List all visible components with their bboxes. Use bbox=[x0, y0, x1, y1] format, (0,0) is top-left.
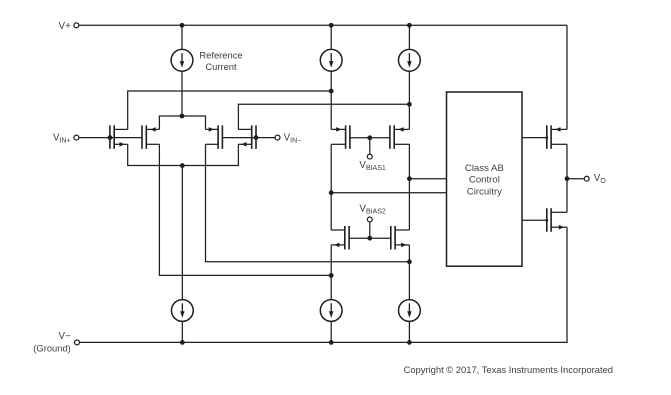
wire inner pair top tail bbox=[159, 116, 205, 129]
node W2 junction bbox=[407, 102, 412, 107]
svg-text:Control: Control bbox=[469, 175, 500, 186]
svg-text:(Ground): (Ground) bbox=[33, 343, 71, 354]
terminal VBIAS1 bbox=[367, 154, 372, 159]
node WA junction bbox=[407, 259, 412, 264]
wire outer pair bottom tail bbox=[128, 144, 239, 165]
terminal VBIAS2 bbox=[367, 217, 372, 222]
node Q9 gate dot bbox=[545, 136, 548, 139]
wire Q9 gate to box bbox=[522, 137, 547, 139]
node top-rail junction A bbox=[180, 23, 185, 28]
wire W1 down to Q5 bbox=[330, 91, 332, 129]
wire VBIAS2 gates bbox=[349, 237, 391, 239]
transistor Q9 (output PMOS) bbox=[546, 125, 548, 149]
wire V+ rail bbox=[79, 24, 567, 26]
wire I3 top stub bbox=[408, 25, 410, 49]
svg-text:Reference: Reference bbox=[199, 49, 242, 60]
node WC junction bbox=[329, 190, 334, 195]
terminal V- bbox=[75, 340, 80, 345]
node W1 junction bbox=[329, 89, 334, 94]
svg-text:Circuitry: Circuitry bbox=[467, 186, 502, 197]
terminal VO bbox=[584, 176, 589, 181]
wire V- rail bbox=[80, 341, 568, 343]
svg-text:V−: V− bbox=[59, 331, 72, 342]
transistor Q8 (lower cascode right NMOS) bbox=[390, 226, 392, 250]
node top-rail junction B bbox=[329, 23, 334, 28]
current source I4 (tail) bbox=[171, 300, 193, 322]
node VBIAS1 gate junction bbox=[367, 135, 372, 140]
wire ref-source top stub bbox=[181, 25, 183, 49]
wire Q8 source down to I6 bbox=[408, 245, 410, 299]
current source I2 bbox=[320, 49, 342, 71]
terminal V+ bbox=[74, 23, 79, 28]
wire ref-source to inner-pair tail bbox=[181, 72, 183, 117]
wire VBIAS2 stub bbox=[369, 222, 371, 238]
node inner tail junction bbox=[180, 114, 185, 119]
svg-text:VBIAS2: VBIAS2 bbox=[359, 204, 385, 216]
wire VIN- to gates bbox=[222, 137, 274, 139]
wire output node to Q10 bbox=[566, 179, 568, 213]
wire I2 to node W1 bbox=[330, 72, 332, 92]
wire left cascode chain bbox=[330, 144, 332, 230]
current source I1 (reference) bbox=[171, 49, 193, 71]
wire I2 top stub bbox=[330, 25, 332, 49]
node V- rail junction C bbox=[407, 340, 412, 345]
node outer tail junction bbox=[180, 163, 185, 168]
current source I5 bbox=[320, 300, 342, 322]
transistor Q10 (output NMOS) bbox=[546, 208, 548, 232]
node V- rail junction B bbox=[329, 340, 334, 345]
svg-text:Class AB: Class AB bbox=[465, 163, 504, 174]
svg-text:VIN+: VIN+ bbox=[53, 132, 71, 144]
wire Q7 source down to I5 bbox=[330, 245, 332, 299]
node WB junction bbox=[329, 273, 334, 278]
node V- rail junction A bbox=[180, 340, 185, 345]
svg-text:VBIAS1: VBIAS1 bbox=[359, 160, 385, 172]
wire tail to I4 bbox=[181, 166, 183, 300]
node VBIAS2 gate junction bbox=[367, 236, 372, 241]
wire I5 to rail bbox=[330, 322, 332, 343]
wire I3 to node W2 bbox=[408, 72, 410, 105]
node top-rail junction C bbox=[407, 23, 412, 28]
wire Q4 drain up to W2 bbox=[238, 104, 409, 129]
wire Q1 drain up to W1 bbox=[128, 91, 332, 129]
svg-text:VIN−: VIN− bbox=[284, 132, 302, 144]
node Q10 gate dot bbox=[545, 219, 548, 222]
terminal VIN+ bbox=[74, 135, 79, 140]
wire Q10 gate to box bbox=[522, 219, 547, 221]
wire output node to terminal bbox=[567, 178, 584, 180]
wire Q10 source to V- rail bbox=[566, 227, 568, 342]
wire Q9 drain to output node bbox=[566, 144, 568, 178]
transistor Q2 (input PMOS, VIN+) bbox=[141, 125, 143, 149]
wire WC to class-AB box bbox=[331, 192, 446, 194]
wire VIN+ to gates bbox=[79, 137, 142, 139]
wire W2 down to Q6 bbox=[408, 104, 410, 129]
svg-text:VO: VO bbox=[594, 173, 607, 185]
wire right cascode chain bbox=[408, 144, 410, 230]
block class-AB control circuitry bbox=[447, 92, 523, 266]
wire VBIAS1 stub bbox=[369, 138, 371, 154]
wire Q3 source down to WA bbox=[206, 144, 410, 261]
transistor Q1 (input NMOS, VIN+) bbox=[109, 125, 111, 149]
terminal VIN- bbox=[275, 135, 280, 140]
transistor Q4 (input NMOS, VIN-) bbox=[255, 125, 257, 149]
svg-text:Copyright © 2017, Texas Instru: Copyright © 2017, Texas Instruments Inco… bbox=[404, 364, 613, 375]
wire V+ rail drop to Q9 bbox=[566, 25, 568, 129]
transistor Q6 (upper cascode right PMOS) bbox=[389, 125, 391, 149]
wire I6 to rail bbox=[408, 322, 410, 343]
transistor Q5 (upper cascode left PMOS) bbox=[349, 125, 351, 149]
current source I6 bbox=[399, 300, 421, 322]
transistor Q7 (lower cascode left NMOS) bbox=[348, 226, 350, 250]
svg-text:Current: Current bbox=[205, 61, 237, 72]
wire Q2 source down to WB bbox=[159, 144, 331, 275]
current source I3 bbox=[399, 49, 421, 71]
transistor Q3 (input PMOS, VIN-) bbox=[221, 125, 223, 149]
wire VBIAS1 gates bbox=[350, 137, 390, 139]
wire WD to class-AB box bbox=[409, 178, 446, 180]
wire I4 to rail bbox=[181, 322, 183, 343]
node VIN+ gate junction bbox=[108, 135, 113, 140]
node output junction bbox=[565, 176, 570, 181]
node VIN- gate junction bbox=[254, 135, 259, 140]
svg-text:V+: V+ bbox=[59, 21, 72, 32]
node WD junction bbox=[407, 176, 412, 181]
